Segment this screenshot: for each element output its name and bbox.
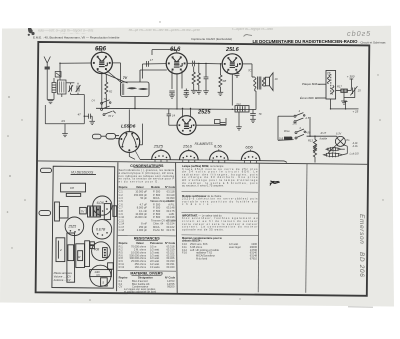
svg-text:160 ohms: 160 ohms <box>135 265 147 269</box>
IF can (chassis) <box>88 206 101 217</box>
dial cable plug <box>92 134 106 139</box>
svg-text:2.000 pF: 2.000 pF <box>137 228 148 232</box>
svg-text:R17: R17 <box>337 85 342 89</box>
svg-text:63.340: 63.340 <box>166 265 174 269</box>
svg-text:R13: R13 <box>308 139 313 143</box>
svg-text:Emerson: Emerson <box>358 214 365 244</box>
tube socket 6E7 (chassis) <box>92 220 111 239</box>
trimmer box TV <box>55 72 61 78</box>
svg-text:25Z5: 25Z5 <box>67 225 76 229</box>
table column divider v1 <box>117 162 118 291</box>
25L6 plate wire <box>243 63 252 65</box>
svg-text:17: 17 <box>150 58 154 62</box>
svg-text:E.M.E. : 40, Boulevard Haussma: E.M.E. : 40, Boulevard Haussmann, VII — … <box>33 36 120 40</box>
25Z5 anode risers <box>182 108 184 117</box>
svg-text:25: 25 <box>357 89 361 93</box>
faint stamp speckle row <box>37 27 273 36</box>
svg-text:Antenne ... CV: Antenne ... CV <box>53 278 71 282</box>
svg-text:τ—ομεντ σι—ταχομε ντ—ισεο: τ—ομεντ σι—ταχομε ντ—ισεο <box>232 27 273 31</box>
svg-text:+ 300: + 300 <box>347 74 355 78</box>
wire CV bottoms to AVC loop <box>71 93 85 124</box>
svg-text:Désignation: Désignation <box>138 276 153 280</box>
socket pins (25Z5 chassis) <box>70 229 80 233</box>
socket pins (6D6 chassis) <box>97 201 108 212</box>
svg-text:240: 240 <box>292 122 298 125</box>
svg-text:L.ch.0,5: L.ch.0,5 <box>350 152 360 155</box>
svg-text:F.16: F.16 <box>182 251 187 255</box>
resistor board <box>76 244 85 268</box>
svg-text:6D6: 6D6 <box>245 144 253 149</box>
outer frame border <box>36 42 370 296</box>
volume potentiometer <box>55 202 60 221</box>
svg-text:6.E7B: 6.E7B <box>96 228 106 232</box>
coupling capacitor C18 <box>191 61 193 67</box>
junction dot (grid wire) <box>59 63 60 64</box>
junction dots (bus) <box>176 108 233 110</box>
6L6 plate wire to V3 <box>188 62 192 64</box>
mounting tab 2 (cord exit) <box>39 211 51 216</box>
antenna A <box>44 57 50 100</box>
wave band switch S2 <box>101 106 110 110</box>
svg-text:7F: 7F <box>259 112 263 116</box>
svg-text:6.D6: 6.D6 <box>97 201 104 205</box>
node +25 wire <box>331 99 359 109</box>
dial lamp holder <box>106 133 119 139</box>
rule above RESISTANCES <box>118 234 176 237</box>
power transformer block <box>61 183 86 192</box>
ground (MF2) <box>341 92 347 104</box>
25L6 cathode capacitor C9 <box>227 71 229 74</box>
svg-text:Repère: Repère <box>119 241 128 245</box>
svg-text:VU DESSOUS: VU DESSOUS <box>71 170 94 174</box>
svg-text:Pièces annexes: Pièces annexes <box>54 271 73 275</box>
tube socket 6D6 (chassis) <box>93 196 112 215</box>
switch S6 <box>295 129 306 134</box>
svg-text:R.17: R.17 <box>321 131 327 135</box>
tube V5 (ballast L55D6) <box>119 109 143 159</box>
svg-text:CV: CV <box>119 284 123 288</box>
cathode resistor R2 <box>105 82 108 94</box>
resistor R5 <box>191 67 197 94</box>
grid wire node G1 <box>60 62 91 64</box>
ground (C2) <box>89 121 95 124</box>
tube base 6D6 (filament row) <box>241 150 260 164</box>
tube base 25Z5 (filament row) <box>152 149 171 163</box>
svg-text:76 V: 76 V <box>108 114 114 118</box>
svg-text:7V: 7V <box>123 76 128 80</box>
rule above MATERIEL DIVERS <box>118 270 176 273</box>
svg-text:et du service pour E.: et du service pour E. <box>119 179 159 183</box>
ballast coil B1 <box>326 147 341 152</box>
capacitor C15 <box>220 122 226 124</box>
switch common riser <box>307 117 337 136</box>
page bottom edge shadow <box>348 306 373 308</box>
oscillator coil L2 <box>58 63 67 97</box>
6D6 plate wire <box>113 62 121 64</box>
switch S7 <box>295 134 304 139</box>
svg-text:A.5: A.5 <box>304 117 309 120</box>
IF transformer MF2 <box>326 71 336 100</box>
svg-text:Repère: Repère <box>119 185 128 189</box>
svg-text:CONDENSATEURS: CONDENSATEURS <box>130 164 164 168</box>
MF2 secondary top wire <box>336 90 341 92</box>
svg-text:Écran 6D6 →: Écran 6D6 → <box>300 95 317 100</box>
svg-text:C.18: C.18 <box>119 228 125 232</box>
chassis layout (vu de dessous) <box>39 166 117 288</box>
schematic input stage <box>44 57 116 137</box>
antenna coil L1 <box>52 78 56 100</box>
capacitor C5 (cathode) <box>169 91 174 95</box>
tuning capacitor CV2 <box>76 83 81 92</box>
trimmer capacitor C25 <box>344 86 357 97</box>
svg-text:14: 14 <box>172 114 176 118</box>
switch S4 (secteur) <box>294 113 305 118</box>
trimmer TV (chassis) <box>80 207 87 214</box>
svg-text:au secteur, il sera 0,75 ampèr: au secteur, il sera 0,75 ampère. <box>182 184 224 188</box>
plaque lead wire <box>318 83 327 85</box>
rectifier filter box <box>215 120 221 124</box>
mains plug DB <box>284 137 292 140</box>
resistor R8 <box>218 64 224 96</box>
capacitor C2 (AVC filter) <box>84 114 92 121</box>
page specks <box>7 21 384 301</box>
pilot lamp LP <box>335 136 345 146</box>
wave band switch S1 <box>101 100 111 104</box>
legend (chassis) <box>53 271 73 282</box>
svg-text:+ 25: + 25 <box>353 110 359 114</box>
tube base 25L6 (filament row) <box>180 149 199 163</box>
notes column <box>182 164 259 261</box>
CONDENSATEURS table <box>118 164 176 232</box>
chassis outline <box>52 166 115 288</box>
svg-text:Nº Code: Nº Code <box>165 276 176 280</box>
svg-text:сb0г5: сb0г5 <box>347 29 371 38</box>
IF transformer MF1 <box>121 70 167 109</box>
svg-text:Repère: Repère <box>119 276 128 280</box>
svg-text:Nº Code: Nº Code <box>165 185 176 189</box>
wave band switch S3 <box>103 111 116 116</box>
socket 408 (chassis) <box>92 242 111 261</box>
field coil riser <box>255 91 256 110</box>
pin block (socket 408) <box>103 248 108 258</box>
svg-text:CV: CV <box>96 273 100 277</box>
svg-text:variable vers position du fusi: variable vers position du fusible sur <box>182 199 258 203</box>
output transformer T1 <box>252 77 265 92</box>
svg-text:R.13: R.13 <box>119 265 125 269</box>
svg-text:R8: R8 <box>223 79 227 83</box>
svg-text:63.178: 63.178 <box>166 228 174 232</box>
speaker (chassis bottom) <box>90 265 111 286</box>
ecran lead wire <box>315 97 326 99</box>
svg-text:Nº Code: Nº Code <box>165 241 176 245</box>
table column divider v3 <box>258 163 259 292</box>
output lug box <box>101 278 108 286</box>
svg-text:A.0s: A.0s <box>352 145 359 148</box>
filter choke CH <box>235 106 249 112</box>
svg-text:Imprimerie CHAIX (Exclusivité): Imprimerie CHAIX (Exclusivité) <box>191 37 232 41</box>
svg-text:13 watts: 13 watts <box>150 265 160 269</box>
25Z5 output wire right <box>196 124 226 126</box>
resistor R13 (line dropping) <box>313 136 316 162</box>
svg-text:Volume ..... CV: Volume ..... CV <box>54 275 72 279</box>
svg-text:.τα—με ντι—ο.σε το—σεν ται—μετ: .τα—με ντι—ο.σε το—σεν ται—μετον—τα.σιν—… <box>128 28 200 32</box>
resistor R11 <box>341 89 351 92</box>
capacitor C6 <box>184 89 189 95</box>
svg-text:- Circuit et Schémas: - Circuit et Schémas <box>359 41 387 45</box>
6D6 cathode wires <box>97 71 128 84</box>
svg-text:25L6: 25L6 <box>225 47 240 53</box>
svg-text:P.L: P.L <box>346 138 350 142</box>
connector pair <box>90 242 94 245</box>
ground (C5) <box>169 95 175 98</box>
bracket <box>85 241 90 267</box>
svg-text:Modèle: Modèle <box>151 185 160 189</box>
bus wire (B-) <box>96 108 256 109</box>
terminal strip <box>66 193 80 196</box>
svg-text:16.000 mF: 16.000 mF <box>135 215 148 219</box>
svg-text:47: 47 <box>78 112 82 116</box>
filament link wire <box>135 150 140 159</box>
svg-text:D.B: D.B <box>279 138 284 141</box>
speaker plug (chassis right) <box>104 204 110 220</box>
svg-text:67910: 67910 <box>250 257 258 261</box>
ground (AVC) <box>62 124 68 137</box>
socket pins (6E7 chassis) <box>97 232 108 236</box>
svg-text:6D6: 6D6 <box>95 47 107 53</box>
svg-text:R1: R1 <box>62 119 66 123</box>
6L6 cathode wires <box>171 71 173 90</box>
svg-text:avec léger: avec léger <box>229 245 241 249</box>
table column divider v2 <box>176 163 178 293</box>
svg-text:fil du fond: fil du fond <box>196 257 208 261</box>
resistor R6 <box>196 63 202 94</box>
svg-text:P.à.M. 60: P.à.M. 60 <box>153 228 164 232</box>
electrolytic can 1 <box>56 238 65 262</box>
AVC return wire <box>45 105 84 124</box>
table column divider v4 <box>306 164 307 293</box>
aerial lug <box>108 263 114 269</box>
tube socket 25Z5 (chassis) <box>65 217 84 236</box>
svg-text:fusible: fusible <box>320 136 328 140</box>
pen mark near banner <box>244 35 253 37</box>
ground (choke input) <box>238 112 240 127</box>
svg-text:châssis BD214 :: châssis BD214 : <box>182 239 202 243</box>
ink blot top-left <box>28 28 35 36</box>
svg-text:Puissance: Puissance <box>150 241 163 245</box>
svg-text:99200: 99200 <box>167 284 175 288</box>
svg-text:C8: C8 <box>70 186 74 190</box>
tube base 6E7 (filament row) <box>210 149 229 163</box>
ballast coil B2 <box>323 152 342 157</box>
svg-text:Valeur: Valeur <box>136 241 144 245</box>
svg-text:6,3V: 6,3V <box>336 133 341 136</box>
filament heater line <box>140 159 287 162</box>
switch S5 <box>294 118 303 123</box>
svg-text:BD 206: BD 206 <box>358 252 365 278</box>
svg-text:2: 2 <box>59 248 62 252</box>
tube V3 25L6 <box>222 54 242 74</box>
mains section wires <box>278 116 294 140</box>
capacitor C14 <box>167 113 171 115</box>
svg-text:MATERIEL DIVERS: MATERIEL DIVERS <box>130 271 163 275</box>
svg-text:6.56: 6.56 <box>214 143 223 148</box>
junction dots (plate wire) <box>193 63 221 65</box>
svg-text:optimale est de 35 watts.: optimale est de 35 watts. <box>182 227 224 231</box>
6L6 grid cap wire <box>176 50 178 53</box>
tube V1 6D6 <box>91 52 112 73</box>
svg-text:25Z5: 25Z5 <box>153 143 164 148</box>
svg-text:Valeur: Valeur <box>136 185 144 189</box>
speaker HP <box>265 73 273 91</box>
svg-text:et cadran galvanisé de bord: et cadran galvanisé de bord <box>124 289 157 293</box>
HP annotation mark <box>270 181 280 186</box>
primary riser wire <box>277 116 279 140</box>
svg-text:RESISTANCES: RESISTANCES <box>134 237 160 241</box>
coupling capacitor C17 <box>145 61 147 67</box>
MATERIEL DIVERS table <box>119 271 176 293</box>
RESISTANCES table <box>119 237 176 269</box>
svg-text:S: S <box>102 281 104 285</box>
svg-text:2525: 2525 <box>197 109 211 115</box>
tuning capacitor CV1 <box>66 83 74 92</box>
svg-text:25L6: 25L6 <box>182 143 193 148</box>
+300 feed wire <box>350 79 354 91</box>
svg-text:LE DOCUMENTAIRE DU RADIOTECHNI: LE DOCUMENTAIRE DU RADIOTECHNICIEN-RADIO <box>253 39 359 44</box>
tube V2 6L6 <box>166 53 187 74</box>
svg-text:FILAMENTS: FILAMENTS <box>195 142 214 146</box>
filter block <box>67 233 75 282</box>
electrolytic C10 <box>252 109 254 113</box>
capacitor C7 <box>203 64 209 95</box>
MF1 secondary to V2 grid wire <box>142 61 166 79</box>
tube V4 25Z5 rectifier <box>177 116 196 135</box>
6D6 grid cap stub <box>59 49 127 117</box>
svg-text:L55D6: L55D6 <box>121 123 136 129</box>
ground (antenna) <box>47 100 54 104</box>
horizontal rule between schematic and tables <box>38 161 368 164</box>
svg-text:Prise: Prise <box>284 130 290 133</box>
svg-text:50 pF: 50 pF <box>140 196 147 200</box>
mounting tab 1 <box>41 168 52 172</box>
lamp feed diagonal wire <box>328 145 347 155</box>
25Z5 cathode wire left <box>169 124 177 126</box>
junction dots (mains) <box>309 108 346 137</box>
ground (C6) <box>184 94 190 97</box>
